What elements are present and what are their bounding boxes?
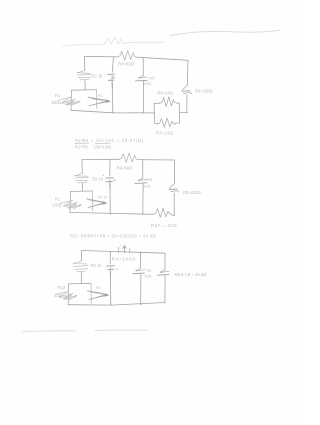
svg-text:R2 1k: R2 1k: [92, 74, 104, 79]
wire bottom rail c3: [68, 303, 165, 306]
svg-text:R8=100Ω: R8=100Ω: [195, 88, 213, 93]
wire bottom rail: [71, 110, 154, 113]
wire box2 right side: [92, 191, 94, 211]
wire box2 top: [71, 190, 93, 193]
resistor R3 c2: [87, 199, 106, 208]
battery BT1 short plate: [108, 79, 113, 81]
wire box1 top: [72, 89, 97, 92]
junction dot c2 bottom left corner: [70, 212, 71, 213]
resistor R5 c3 tick: [136, 270, 142, 271]
svg-text:R5: R5: [146, 268, 151, 273]
wire battery branch dark segment c2: [109, 184, 111, 188]
svg-text:R3 1k: R3 1k: [98, 196, 108, 200]
stray pencil dot c2: [103, 175, 104, 176]
wire R5 branch top: [142, 58, 144, 76]
junction dot c1 bottom right corner: [186, 112, 187, 113]
wire right rail upper c3: [164, 253, 166, 270]
junction dot c3 bottom right corner: [164, 302, 165, 303]
resistor R3: [88, 97, 109, 106]
battery BT1 long plate: [108, 73, 115, 75]
battery BT1 c3 long plate: [107, 265, 115, 267]
resistor R2 c3: [73, 261, 88, 272]
resistor R1 c2 second stroke: [64, 204, 81, 208]
resistor R3 c3: [88, 291, 108, 300]
wire R5 branch bottom: [142, 81, 144, 112]
wire box67 bottom branch right: [175, 113, 179, 124]
svg-text:R4=100Ω: R4=100Ω: [112, 257, 136, 262]
svg-text:R8=100Ω: R8=100Ω: [183, 190, 201, 195]
svg-text:23Ω: 23Ω: [54, 293, 62, 298]
svg-text:(30+100): (30+100): [94, 145, 111, 150]
resistor R1: [58, 97, 80, 106]
resistor R5 c2 dash: [135, 182, 147, 185]
wire battery branch top c3: [109, 251, 111, 263]
svg-text:R1: R1: [55, 196, 61, 201]
wire right rail upper c2: [173, 160, 175, 183]
wire top rail right segment c2: [139, 159, 175, 161]
svg-text:R5: R5: [147, 177, 152, 182]
svg-text:R13: R13: [58, 285, 66, 290]
svg-text:R4=60Ω: R4=60Ω: [118, 61, 135, 66]
svg-text:R7=15Ω: R7=15Ω: [156, 130, 174, 135]
wire bottom rail left c2: [70, 212, 154, 214]
resistor R2: [77, 71, 91, 80]
resistor R3 second stroke: [92, 99, 111, 105]
resistor R5 c2 tick: [138, 180, 144, 181]
wire box67 top branch left: [154, 102, 160, 104]
svg-text:20Ω: 20Ω: [143, 184, 150, 189]
wire box67 bottom branch left: [154, 113, 157, 124]
wire left rail upper c2: [81, 160, 83, 174]
wire R5 branch bottom c3: [140, 274, 142, 305]
wire right rail lower: [186, 95, 188, 113]
svg-text:100Ω: 100Ω: [52, 203, 62, 208]
resistor R67: [154, 208, 172, 217]
resistor R2 c2: [75, 174, 89, 183]
wire left rail upper c3: [80, 251, 82, 262]
faint smudge line mid-page: [22, 330, 148, 332]
svg-text:R5,6,7,8 = 44.4Ω: R5,6,7,8 = 44.4Ω: [175, 272, 207, 277]
resistor R5 c3 dash: [133, 272, 145, 275]
junction dot c1 R5 foot: [143, 112, 144, 113]
current tick right: [129, 248, 131, 254]
resistor R8 c2 diagonal: [169, 183, 174, 188]
faint smudge line top-right: [170, 30, 280, 35]
resistor R5 c3 chevron: [136, 268, 145, 271]
current arrow I: [123, 246, 127, 253]
wire box3 left side: [67, 284, 69, 305]
wire box67 top branch right: [176, 103, 179, 113]
junction dot c3 R5 foot: [140, 304, 141, 305]
resistor R5 c2 chevron: [138, 178, 147, 181]
wire box3 right side: [90, 283, 92, 303]
resistor R7: [158, 118, 176, 127]
resistor R1 c2: [60, 200, 82, 209]
svg-text:3v: 3v: [111, 75, 116, 80]
wire battery branch dark segment: [111, 82, 113, 88]
wire right rail lower c3: [164, 276, 166, 303]
wire top rail left segment: [85, 55, 118, 58]
equation1 fraction bar 1: [75, 142, 89, 144]
svg-text:R4=60Ω: R4=60Ω: [117, 166, 134, 171]
svg-text:R6=10Ω: R6=10Ω: [158, 91, 174, 96]
wire top rail left segment c2: [82, 158, 119, 160]
svg-text:I: I: [120, 243, 121, 247]
wire top rail right segment: [137, 57, 188, 60]
resistor R5 dash: [136, 79, 148, 82]
svg-text:R5: R5: [149, 76, 154, 81]
svg-text:1k: 1k: [102, 98, 106, 102]
current tick left: [118, 247, 120, 253]
wire box3 top: [69, 282, 92, 285]
battery BT1 c2 short plate: [106, 180, 112, 182]
svg-text:3v: 3v: [113, 178, 117, 182]
svg-text:20Ω: 20Ω: [144, 274, 151, 279]
junction dot c2 battery foot: [110, 213, 111, 214]
svg-text:3v: 3v: [115, 268, 119, 272]
resistor R1 second stroke: [62, 101, 80, 105]
wire battery branch bottom: [111, 81, 114, 113]
svg-text:R3: R3: [96, 286, 101, 290]
svg-text:R1+R3: R1+R3: [75, 145, 89, 150]
wire box1 right side: [96, 90, 98, 109]
svg-text:R1×R3: R1×R3: [75, 138, 89, 143]
junction dot c1 box67 left node: [154, 112, 155, 113]
wire right rail upper: [186, 60, 189, 85]
equation1 fraction bar 2: [95, 142, 110, 144]
resistor R8 c2 dash: [169, 188, 177, 191]
resistor R8 dash: [182, 90, 190, 93]
wire battery mid segment c1: [111, 75, 113, 81]
svg-text:100Ω: 100Ω: [51, 100, 61, 105]
wire left rail upper: [84, 56, 86, 70]
wire battery branch top: [112, 57, 113, 72]
resistor R5678 chevron: [160, 270, 169, 273]
wire battery branch top c2: [109, 159, 111, 176]
wire box1 left side: [70, 90, 73, 110]
wire R5 branch top c3: [140, 252, 142, 269]
junction dot c1 battery foot: [112, 112, 113, 113]
svg-text:R2 1k: R2 1k: [92, 176, 104, 181]
wire top rail c3: [82, 251, 166, 254]
wire battery mid segment c3: [109, 266, 111, 269]
resistor R4 c2: [119, 153, 139, 162]
resistor R1 c3: [56, 291, 78, 300]
wire bottom rail right c2: [171, 215, 174, 216]
resistor R3 c3 arrow tip: [105, 293, 110, 297]
resistor R4: [118, 51, 138, 60]
wire left rail lower: [84, 80, 86, 90]
wire battery branch bottom c3: [109, 270, 112, 306]
svg-text:R67 = 25Ω: R67 = 25Ω: [151, 223, 177, 228]
resistor R3 c2 second stroke: [90, 200, 107, 206]
junction dot c3 battery foot: [110, 304, 111, 305]
svg-text:R67·R8/R67+R8 = 50×100/150 = 4: R67·R8/R67+R8 = 50×100/150 = 44.4Ω: [70, 234, 156, 239]
resistor R5678 tick: [160, 271, 166, 272]
resistor R8 arrow: [183, 92, 192, 93]
resistor R5678 dash: [157, 274, 169, 277]
battery BT1 c2 long plate: [106, 177, 114, 179]
resistor R5 tick: [139, 77, 145, 78]
battery BT1 c3 short plate: [108, 268, 113, 270]
wire box67 left riser: [153, 104, 155, 113]
wire left rail lower c3: [80, 272, 82, 283]
wire battery branch bottom c2: [109, 182, 111, 214]
resistor R1 c3 second stroke: [60, 295, 77, 299]
resistor R3 c3 second stroke: [91, 292, 109, 298]
resistor R3 c2 arrow tip: [103, 201, 108, 205]
svg-text:20Ω: 20Ω: [144, 81, 151, 86]
wire right rail lower c2: [173, 193, 175, 216]
wire box67 to right rail: [180, 112, 187, 114]
svg-text:R2 1k: R2 1k: [91, 263, 103, 268]
resistor R3 arrow tip: [106, 99, 111, 103]
wire battery mid segment c2: [109, 178, 111, 181]
resistor R8 c2 arrow: [171, 191, 180, 192]
wire R5 branch top c2: [142, 160, 144, 179]
wire battery branch dark segment c3: [109, 272, 111, 277]
resistor R5 chevron: [138, 75, 147, 78]
svg-text:= 30×100 = 23.07(Ω): = 30×100 = 23.07(Ω): [91, 138, 144, 143]
wire R5 branch bottom c2: [142, 184, 144, 215]
resistor R8 diagonal: [182, 85, 187, 90]
junction dot c2 R5 foot: [142, 214, 143, 215]
svg-text:R1: R1: [55, 93, 61, 98]
wire box2 left side: [69, 192, 72, 213]
faint smudge line top-left: [62, 37, 163, 46]
resistor R6: [160, 97, 176, 107]
wire left rail lower c2: [81, 183, 83, 191]
